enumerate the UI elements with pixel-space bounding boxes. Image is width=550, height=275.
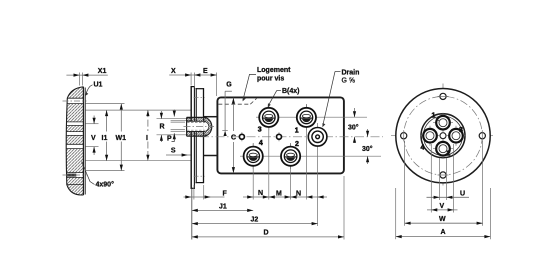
W row [405, 222, 483, 224]
N M N chain [243, 196, 327, 198]
neck lines [204, 116, 218, 118]
svg-text:Logement: Logement [257, 67, 291, 74]
svg-text:A: A [441, 229, 446, 236]
P dim [173, 110, 175, 117]
svg-text:E: E [203, 68, 208, 75]
spigot circles [421, 114, 465, 158]
svg-text:1: 1 [295, 128, 299, 135]
port 4 [244, 140, 263, 169]
drain port [308, 128, 327, 147]
svg-text:U: U [460, 191, 465, 198]
W1 dim [120, 104, 122, 132]
U row [427, 196, 470, 198]
hub [184, 117, 215, 136]
white bands [65, 98, 85, 177]
svg-text:1: 1 [432, 113, 436, 120]
bottom extension lines [396, 141, 491, 239]
pocket dashed [218, 103, 250, 105]
svg-text:C: C [231, 135, 236, 142]
svg-text:V: V [440, 203, 445, 210]
bolt circle [404, 96, 483, 175]
small holes on centerline [241, 132, 243, 141]
svg-text:30°: 30° [348, 124, 359, 132]
svg-text:D: D [264, 230, 269, 237]
4 ports [420, 113, 466, 159]
svg-text:B(4x): B(4x) [282, 88, 300, 95]
svg-text:30°: 30° [362, 145, 373, 153]
svg-text:Drain: Drain [342, 70, 360, 77]
svg-text:pour vis: pour vis [257, 76, 284, 83]
centerlines [391, 135, 495, 137]
top port (1) [433, 113, 453, 133]
spigot plate [196, 88, 204, 183]
svg-text:I1: I1 [102, 135, 108, 142]
bolt holes [401, 93, 486, 178]
long shared extension lines [86, 104, 191, 171]
X1 dimension [79, 73, 81, 86]
V dim [93, 116, 95, 124]
svg-text:J1: J1 [219, 204, 227, 211]
svg-text:2: 2 [447, 151, 451, 158]
svg-text:M: M [276, 191, 282, 198]
bottom port (2) [433, 139, 453, 159]
left port (4) [420, 126, 440, 146]
dash-dot in bottom bolt band [63, 174, 87, 176]
outline stroke [66, 87, 83, 195]
svg-text:V: V [91, 135, 96, 142]
right port (3) [446, 126, 466, 146]
svg-text:R: R [160, 123, 165, 130]
bolt hole cross ticks [404, 96, 483, 175]
port 1 [295, 105, 316, 135]
svg-text:I: I [146, 135, 148, 142]
flange section body (hatched) [66, 87, 83, 195]
V row [427, 209, 458, 211]
port 2 [281, 141, 300, 169]
centerline [200, 136, 383, 138]
J1 row [192, 209, 253, 211]
svg-text:3: 3 [459, 127, 463, 134]
svg-text:3: 3 [258, 127, 262, 134]
svg-text:X: X [171, 68, 176, 75]
svg-text:W1: W1 [116, 135, 127, 142]
port vertical extension lines [253, 104, 317, 226]
dash-dot in top bolt band [63, 100, 87, 102]
X / E dims [190, 73, 192, 86]
svg-text:4: 4 [421, 145, 425, 152]
C dimension [232, 98, 234, 131]
F row [184, 196, 225, 198]
port row lines [256, 116, 367, 118]
svg-text:4x90°: 4x90° [96, 181, 115, 189]
flange right face lines [82, 87, 84, 195]
svg-text:4: 4 [259, 140, 263, 147]
svg-text:2: 2 [295, 141, 299, 148]
svg-text:S: S [171, 148, 176, 155]
D row [192, 236, 344, 238]
outer circle [396, 89, 490, 183]
I1 dim [106, 110, 108, 131]
svg-text:N: N [258, 190, 263, 197]
block [217, 97, 344, 173]
ports [244, 105, 327, 170]
svg-text:U1: U1 [94, 82, 103, 89]
R dim [157, 119, 192, 135]
svg-text:N: N [296, 191, 301, 198]
svg-text:J2: J2 [251, 217, 259, 224]
bolt in bottom band [67, 174, 77, 177]
flange plate [191, 86, 195, 189]
svg-text:W: W [439, 216, 446, 223]
port 3 [258, 105, 279, 134]
svg-text:F: F [223, 191, 228, 198]
30deg dims [354, 108, 356, 117]
J2 row [192, 223, 318, 225]
svg-text:P: P [167, 136, 172, 143]
svg-text:X1: X1 [98, 68, 107, 75]
bottom dims [191, 189, 193, 240]
A row [396, 236, 491, 238]
svg-text:G ⅝: G ⅝ [342, 78, 355, 85]
I dim [147, 110, 149, 131]
band lines [66, 98, 83, 184]
svg-text:G: G [226, 82, 232, 89]
center hole [440, 133, 446, 139]
